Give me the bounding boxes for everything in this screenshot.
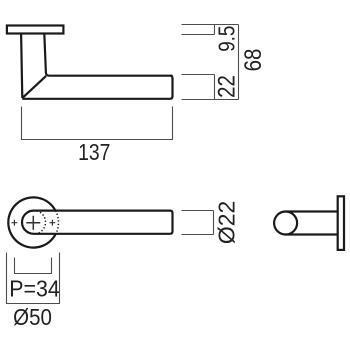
svg-text:Ø22: Ø22 [214,201,240,244]
svg-text:22: 22 [213,75,240,98]
svg-text:68: 68 [239,49,266,72]
svg-text:Ø50: Ø50 [13,304,52,330]
svg-text:9.5: 9.5 [215,26,240,52]
svg-text:P=34: P=34 [9,276,60,302]
svg-text:137: 137 [78,141,110,166]
